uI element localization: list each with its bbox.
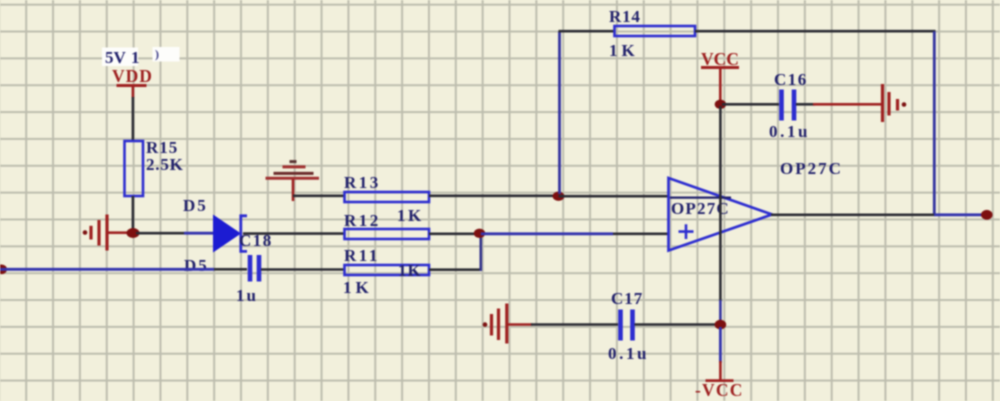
wire C18 to R11 <box>261 268 345 271</box>
wire G2 to R13 <box>293 195 345 198</box>
wire feedback down right (blue) <box>933 31 936 216</box>
power port VDD stem <box>132 86 135 99</box>
svg-text:D5: D5 <box>183 196 208 215</box>
node VCC junction dot <box>715 100 726 109</box>
wire output to port (blue) <box>934 213 983 216</box>
wire node C down to R11 <box>479 234 482 271</box>
power port VDD bar <box>117 84 147 87</box>
resistor R12 <box>345 229 430 239</box>
ground G4 dot <box>483 322 488 327</box>
svg-text:1K: 1K <box>398 261 422 280</box>
wire node C to op-amp plus (blue) <box>481 232 613 235</box>
wire G4 to C17 <box>531 323 618 326</box>
svg-text:5V: 5V <box>105 48 127 67</box>
ground G4 bars <box>492 304 507 344</box>
wire op-amp output <box>771 214 935 217</box>
wire node B up to R14 (blue) <box>558 31 561 194</box>
wire to op-amp plus <box>613 233 669 236</box>
wire input (blue) <box>0 268 214 271</box>
svg-text:R14: R14 <box>609 7 641 26</box>
power rail through op-amp <box>719 106 722 301</box>
svg-text:1K: 1K <box>609 41 639 60</box>
ground G1 wire <box>106 231 131 234</box>
wire R15 to node A <box>132 196 135 233</box>
ground G2 stem <box>292 179 295 201</box>
wire R13 to node B <box>429 195 556 198</box>
svg-text:0.1u: 0.1u <box>769 122 810 141</box>
svg-text:-VCC: -VCC <box>695 380 744 400</box>
white patch 1 under 5V label <box>102 48 138 67</box>
wire C17 to node D <box>635 323 718 326</box>
node A junction dot <box>127 228 140 238</box>
wire C16 to ground G3 <box>796 103 815 106</box>
op-amp minus pin line inside <box>670 197 731 199</box>
svg-text:R11: R11 <box>344 246 380 265</box>
power port -VCC stem <box>719 361 722 380</box>
resistor R15 <box>125 141 144 196</box>
svg-text:C17: C17 <box>611 289 643 308</box>
op-amp U1 triangle <box>669 178 773 251</box>
svg-text:VDD: VDD <box>112 66 153 86</box>
ground G2 bars (earth above R13 wire) <box>266 162 320 179</box>
ground G3 dot <box>902 102 907 107</box>
node D junction dot <box>715 320 727 330</box>
capacitor C16 plates <box>782 90 795 121</box>
node B junction dot <box>553 192 565 201</box>
svg-text:0.1u: 0.1u <box>608 344 649 363</box>
svg-text:R13: R13 <box>344 173 381 192</box>
svg-text:1K: 1K <box>397 206 424 225</box>
svg-text:): ) <box>155 47 159 61</box>
capacitor C18 plates <box>250 255 259 282</box>
ground G4 wire (red) <box>507 323 532 326</box>
wire R12 to node C <box>429 233 478 236</box>
ground G1 bars <box>91 215 107 251</box>
wire R14 right to top corner <box>695 30 936 33</box>
output node dot <box>981 210 993 220</box>
svg-text:1u: 1u <box>236 286 258 305</box>
white patch 2 <box>153 47 180 62</box>
wire VDD to R15 <box>132 97 135 142</box>
node C junction dot <box>474 229 485 238</box>
ground G3 wire (red) <box>813 103 882 106</box>
svg-text:1K: 1K <box>343 278 373 297</box>
power port -VCC bar <box>706 379 734 382</box>
wire node B to op-amp minus <box>559 195 670 198</box>
svg-text:OP27C: OP27C <box>780 159 843 178</box>
svg-text:C18: C18 <box>239 231 273 250</box>
power port VCC stem <box>719 68 722 103</box>
power port VCC bar <box>701 66 739 69</box>
wire VCC node to C16 <box>722 103 779 106</box>
resistor R14 <box>615 26 696 36</box>
ground G3 bars <box>883 84 898 122</box>
diode D5 cathode bracket <box>241 216 247 252</box>
svg-text:C16: C16 <box>774 70 808 89</box>
wire R14 left <box>559 30 616 33</box>
diode D5 triangle <box>213 215 241 253</box>
wire input to C18 <box>214 268 247 271</box>
svg-text:R12: R12 <box>344 211 381 230</box>
wire node D down (blue) <box>719 327 722 363</box>
wire node A to diode anode <box>136 232 184 235</box>
op-amp plus marker <box>679 224 694 239</box>
ground G1 dot <box>83 230 88 235</box>
svg-text:2.5K: 2.5K <box>146 155 184 174</box>
wire diode cathode to R12 <box>243 232 345 235</box>
resistor R13 <box>345 192 430 202</box>
resistor R11 <box>345 265 430 275</box>
svg-text:1: 1 <box>131 48 140 67</box>
capacitor C17 plates <box>621 310 633 341</box>
input node half dot <box>0 265 7 275</box>
wire R11 right <box>429 268 482 271</box>
wire blue segment to anode <box>184 232 214 235</box>
svg-text:D5: D5 <box>184 256 209 275</box>
